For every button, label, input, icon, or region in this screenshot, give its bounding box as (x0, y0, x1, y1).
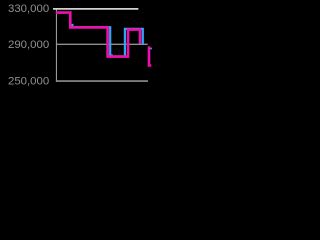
step-line chart panel (0, 0, 155, 89)
svg-text:250,000: 250,000 (8, 75, 49, 87)
svg-text:330,000: 330,000 (8, 3, 49, 15)
magenta step series (56, 13, 151, 66)
white flat series (top) (53, 8, 138, 10)
cyan series corner nub at first step (71, 24, 73, 27)
cyan series tail at right edge (150, 48, 152, 50)
cyan series corner nub at U bottom (109, 54, 112, 56)
cyan step series (72, 27, 142, 56)
gray flat series (bottom) (56, 80, 148, 82)
gray flat series (middle) (56, 43, 147, 45)
y-axis line (55, 8, 57, 82)
svg-text:290,000: 290,000 (8, 39, 49, 51)
